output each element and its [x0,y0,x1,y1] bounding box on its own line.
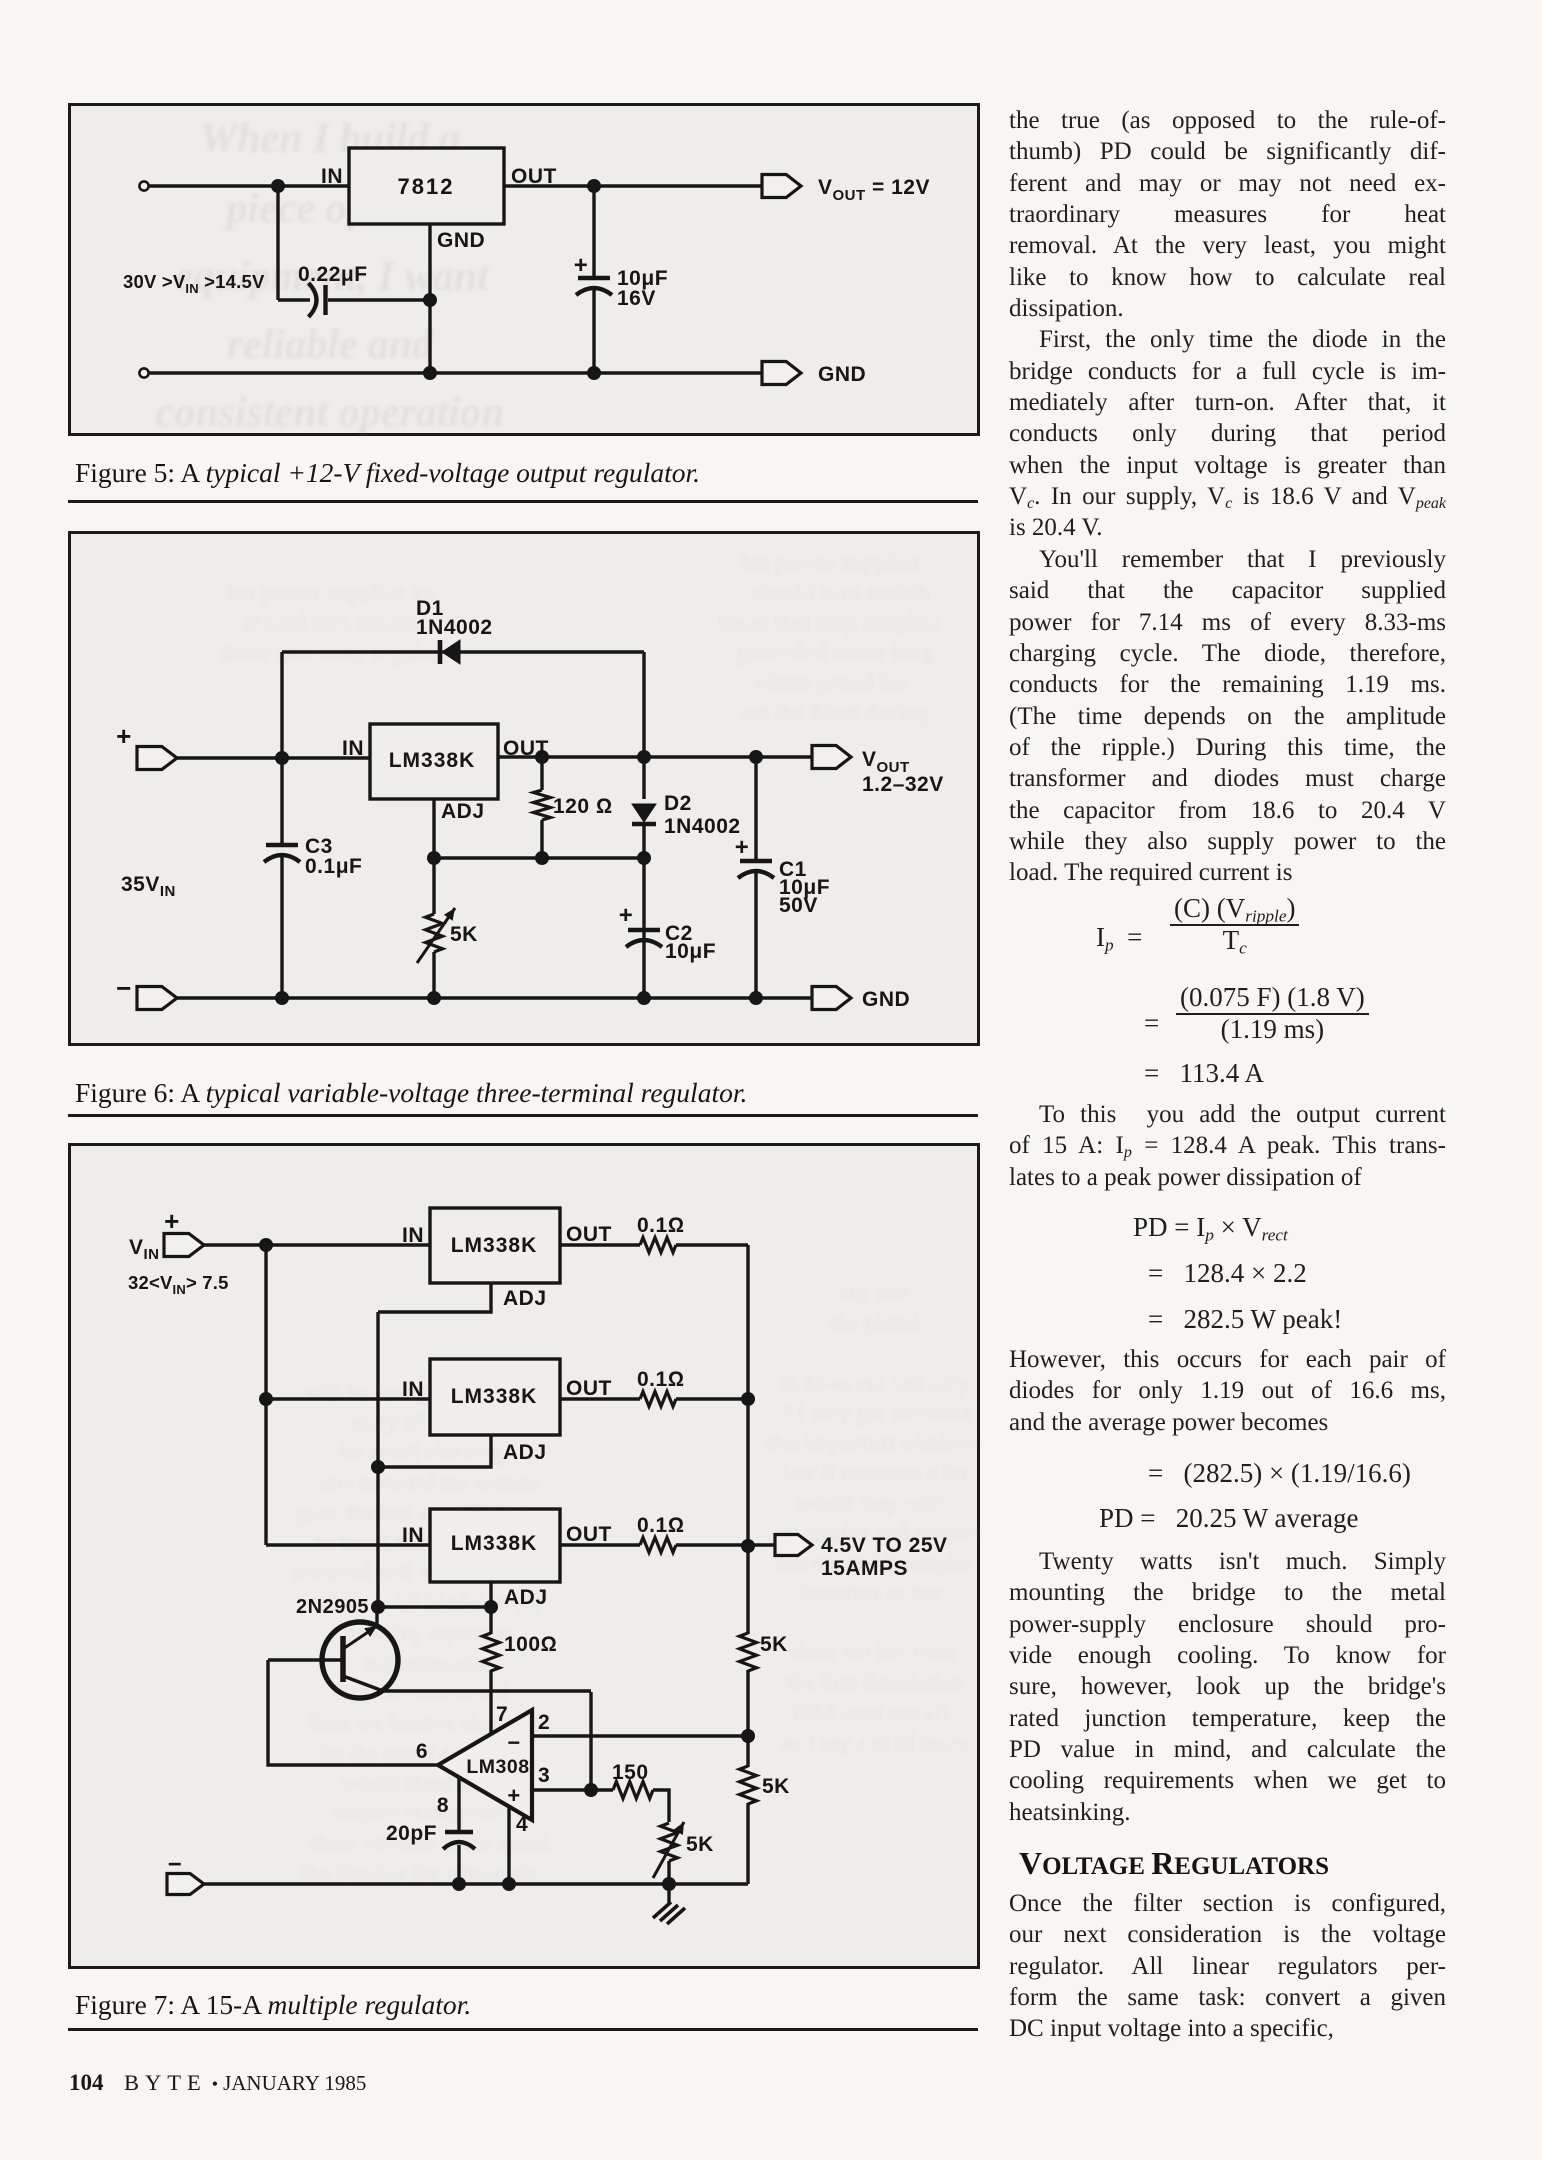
node: rail pin4 [502,1877,516,1891]
wire Vin to IC1 [204,1243,430,1246]
svg-text:hat power supplies au: hat power supplies au [226,580,435,606]
svg-text:0.1Ω: 0.1Ω [637,1514,684,1537]
right column text block A [1009,105,1446,889]
svg-text:4: 4 [516,1813,528,1836]
svg-text:50V: 50V [779,894,818,917]
wire ADJ3 line [378,1605,491,1608]
svg-text:+: + [507,1783,520,1808]
svg-text:OUT: OUT [566,1377,612,1400]
svg-text:5K: 5K [686,1833,714,1856]
regulator U5 LM338K bottom box [430,1509,560,1582]
node: D2 top [637,750,651,764]
wire 150 to pot [653,1790,669,1822]
wire cap branch horizontal [278,298,310,301]
capacitor C1 10uF 50V [740,859,772,863]
op-amp U6 LM308 triangle [438,1710,532,1820]
node: rail C2 [637,991,651,1005]
wire bus to IN2 [266,1397,430,1400]
svg-text:3: 3 [538,1764,550,1787]
node: bus pin2 [741,1729,755,1743]
input terminal top-left [139,181,148,190]
diode D2 1N4002 vertical [642,757,645,799]
output arrow Vout [762,175,801,198]
svg-text:ADJ: ADJ [441,800,485,823]
wire input to IC IN [149,184,349,187]
svg-text:0.1Ω: 0.1Ω [637,1368,684,1391]
wire OUT to arrow fig6 [498,755,812,758]
Q1 base wire [268,1658,343,1661]
svg-text:100Ω: 100Ω [504,1633,557,1656]
bottom rail wire [149,371,762,374]
wire D1 branch up [280,652,283,758]
svg-text:consistent operation: consistent operation [156,390,505,436]
svg-text:16V: 16V [617,287,656,310]
wire input to LM338K IN [177,756,370,759]
wire bus to IN3 [266,1543,430,1546]
svg-text:say that: say that [840,1280,912,1305]
wire OUT2 to resistor [560,1397,640,1400]
svg-text:set the Elect during: set the Elect during [742,700,928,726]
wire C1 branch [754,757,757,859]
svg-text:law it accounts a lot: law it accounts a lot [783,1460,968,1485]
regulator U2 LM338K box [370,724,498,799]
Q1 base bar [340,1636,346,1682]
svg-text:4.5V TO 25V: 4.5V TO 25V [821,1534,948,1557]
wire OUT1 to resistor [560,1243,640,1246]
node: ADJ3-emitter junction [371,1600,385,1614]
svg-text:the first Resolution: the first Resolution [787,1670,964,1695]
pin 4 stub and label [507,1806,510,1884]
svg-text:should turn switch: should turn switch [751,580,928,606]
potentiometer 5K fig6 [432,858,435,914]
svg-text:5K: 5K [762,1775,790,1798]
gnd arrow [762,362,801,385]
wire ADJ stub down [432,799,435,858]
resistor 5K lower on bus [746,1736,749,1767]
equation PD [1133,1212,1288,1243]
wire collector line to pin3 drop [491,1689,591,1692]
ground symbol [667,1884,670,1904]
svg-text:1N4002: 1N4002 [664,815,741,838]
svg-text:ADJ: ADJ [504,1586,548,1609]
ADJ chain vertical [376,1312,379,1607]
pin 7 stub [489,1691,492,1735]
wire cap branch down from input junction [276,186,279,300]
ADJ2 stub [378,1435,491,1467]
svg-text:hat power supplies: hat power supplies [740,550,920,576]
resistor R 0.1 ohm bottom [640,1538,676,1553]
caption figure 5 [75,457,700,489]
footer [69,2070,104,2096]
svg-text:+: + [164,1206,180,1236]
svg-text:law outward the wholes: law outward the wholes [320,1470,539,1495]
node: output cap junction top [587,179,601,193]
svg-text:the flexible the wholesale: the flexible the wholesale [302,1860,538,1885]
terminal bottom-left [139,368,148,377]
resistor R 0.1 ohm top [640,1238,676,1253]
output bus vertical [746,1245,749,1546]
ADJ1 stub [378,1283,491,1312]
wire resistor2 to bus [676,1397,748,1400]
svg-text:for small cleaning: for small cleaning [337,1440,504,1465]
svg-text:VIN: VIN [129,1236,160,1263]
svg-text:would may with: would may with [795,1490,945,1515]
svg-text:where proud for: where proud for [753,670,908,696]
svg-text:recommended: recommended [365,1650,496,1675]
input arrow plus [137,747,177,770]
pin 2 wire [532,1734,748,1737]
svg-text:IN: IN [321,165,343,188]
figure 5 frame [68,103,980,436]
regulator U1 7812 box [349,148,504,224]
node: cap junction on GND stub [423,293,437,307]
resistor 5K upper on bus [746,1546,749,1634]
svg-text:OUT: OUT [566,1223,612,1246]
svg-text:if I may get someone: if I may get someone [778,1400,972,1425]
svg-text:−: − [168,1851,183,1878]
wire OUT3 to resistor [560,1543,640,1546]
node: bus IN2 [259,1392,273,1406]
node: C1 top [749,750,763,764]
svg-text:OUT: OUT [566,1523,612,1546]
svg-text:LM338K: LM338K [389,749,476,772]
svg-text:VOUT = 12V: VOUT = 12V [818,176,930,204]
svg-text:GND: GND [437,229,485,252]
svg-text:5K: 5K [450,923,478,946]
wire D1 branch down to out [642,652,645,757]
ghost bleedthrough text fig6 [220,550,941,726]
capacitor C 10uF 16V vertical wire [592,186,595,276]
svg-text:becomes as her: becomes as her [800,1580,941,1605]
svg-text:+: + [619,902,634,929]
wire ADJ line right [434,856,644,859]
Q1 emitter with arrow to ADJ node [343,1626,377,1649]
node: ADJ2 junction [371,1460,385,1474]
node: ADJ3-100ohm junction [484,1600,498,1614]
svg-text:7: 7 [496,1703,508,1726]
capacitor 0.22uF [309,283,317,317]
transistor Q1 2N2905 circle [322,1622,398,1698]
node: pin3 junction [584,1783,598,1797]
svg-text:GND: GND [818,363,866,386]
svg-text:35VIN: 35VIN [121,873,176,900]
pin 8 stub and label [457,1777,460,1830]
svg-text:0.1Ω: 0.1Ω [637,1214,684,1237]
pin 3 wire [532,1788,613,1791]
regulator U3 LM338K top box [430,1208,560,1283]
svg-text:IN: IN [402,1378,424,1401]
ADJ3 stub [489,1582,492,1607]
svg-text:IN: IN [402,1524,424,1547]
regulator U4 LM338K middle box [430,1359,560,1435]
minus input arrow fig6 [137,987,177,1010]
svg-text:as I say and of more: as I say and of more [782,1730,968,1755]
svg-text:20pF: 20pF [386,1822,437,1845]
wire feedback from base to op-amp output [268,1660,438,1765]
resistor 120 ohm [540,757,543,790]
svg-text:reliable and: reliable and [227,322,434,368]
figure 7 frame [68,1143,980,1969]
svg-text:this important windows: this important windows [766,1430,983,1455]
svg-text:+: + [735,834,750,861]
resistor 100 ohm [489,1607,492,1634]
svg-text:2: 2 [538,1711,550,1734]
node: rail C3 [275,991,289,1005]
svg-text:0.1μF: 0.1μF [305,855,362,878]
node: D2 bottom anchor [637,851,651,865]
node: GND on bottom rail [423,366,437,380]
svg-text:15AMPS: 15AMPS [821,1557,908,1580]
svg-text:ADJ: ADJ [503,1441,547,1464]
figure 6 frame [68,531,980,1046]
svg-text:−: − [507,1730,520,1755]
caption figure 7 [75,1989,471,2021]
svg-text:−: − [116,973,132,1003]
svg-text:LM338K: LM338K [451,1234,538,1257]
right column text block E [1009,1888,1446,2045]
output arrow 4.5-25V [775,1535,812,1556]
node: output cap junction bottom [587,366,601,380]
node: rail pot [427,991,441,1005]
svg-text:120 Ω: 120 Ω [553,795,613,818]
capacitor 10uF plates [578,276,610,280]
wire GND stub down [428,224,431,373]
equation Ip [1096,922,1142,953]
svg-text:the plated: the plated [830,1310,921,1335]
svg-text:ADJ: ADJ [503,1287,547,1310]
svg-text:IN: IN [342,737,364,760]
svg-text:LM338K: LM338K [451,1532,538,1555]
svg-text:does not her most: does not her most [794,1640,958,1665]
svg-text:0.22μF: 0.22μF [298,263,368,286]
svg-text:2N2905: 2N2905 [296,1596,369,1618]
node: rail C1 [749,991,763,1005]
bottom rail fig6 [177,996,812,999]
svg-text:VOUT: VOUT [862,748,910,776]
wire D1 branch top [282,650,644,653]
node: ADJ junction [427,851,441,865]
node: input junction fig6 [275,751,289,765]
right column text block B [1009,1099,1446,1193]
svg-text:10μF: 10μF [665,940,716,963]
svg-text:6: 6 [416,1740,428,1763]
ghost bleedthrough text fig7 [291,1280,984,1885]
svg-text:should turn senses: should turn senses [242,610,418,636]
svg-text:LM338K: LM338K [451,1385,538,1408]
bottom rail fig7 [204,1882,748,1885]
svg-text:GND: GND [862,988,910,1011]
wire pin3 drop vertical [589,1692,592,1790]
equation average [1148,1458,1411,1489]
diode D1 1N4002 [438,640,443,664]
wire resistor1 to bus [676,1243,748,1246]
potentiometer 5K adj [661,1823,678,1861]
node: rail pot-gnd [662,1877,676,1891]
svg-text:1.2–32V: 1.2–32V [862,773,944,796]
svg-text:150: 150 [612,1761,649,1784]
section heading [1019,1845,1329,1882]
minus arrow fig7 [167,1874,204,1895]
caption figure 6 [75,1077,747,1109]
ghost bleedthrough text fig5 [156,116,505,436]
svg-text:these that stop supplies: these that stop supplies [719,610,941,636]
svg-text:8: 8 [437,1794,449,1817]
svg-text:IBM least test (I): IBM least test (I) [791,1700,949,1725]
svg-text:7812: 7812 [398,174,455,199]
node: 120ohm tap [535,750,549,764]
node: output junction [741,1539,755,1553]
svg-text:grounded mean long: grounded mean long [736,640,933,666]
input arrow Vin [164,1234,204,1257]
svg-text:LM308: LM308 [466,1756,529,1778]
resistor R 0.1 ohm middle [640,1392,676,1407]
svg-text:+: + [574,252,589,279]
node: bus out2 [741,1392,755,1406]
wire out junction to arrow [594,184,762,187]
svg-text:D2: D2 [664,792,692,815]
svg-text:5K: 5K [760,1633,788,1656]
node: rail 20pF [452,1877,466,1891]
wire D2 lower to rail [642,858,645,998]
capacitor 20pF [445,1830,473,1834]
output arrow Vout fig6 [812,746,851,769]
gnd arrow fig6 [812,987,851,1010]
svg-text:in however and only: in however and only [781,1370,970,1395]
svg-text:32<VIN> 7.5: 32<VIN> 7.5 [128,1272,229,1297]
node: input junction [271,179,285,193]
resistor 150 [613,1782,653,1799]
Q1 collector [343,1676,491,1691]
capacitor C3 0.1uF [280,758,283,843]
node: Vin bus top [259,1238,273,1252]
wire OUT to output cap [504,184,594,187]
wire resistor3 to output node [676,1543,775,1546]
vertical input bus [264,1245,267,1545]
wire cap to GND stub [328,298,430,301]
svg-text:+: + [116,721,132,751]
svg-text:1N4002: 1N4002 [416,616,493,639]
capacitor C2 10uF [628,928,660,932]
node: 120ohm bottom [535,851,549,865]
right column text block C [1009,1344,1446,1438]
svg-text:IN: IN [402,1224,424,1247]
right column text block D [1009,1546,1446,1828]
